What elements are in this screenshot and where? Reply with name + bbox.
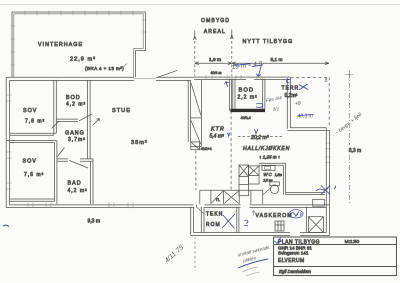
closet band cells: [200, 190, 263, 204]
blue mark at bod2 wall: [256, 103, 263, 107]
svg-text:3,7m²: 3,7m²: [68, 137, 86, 143]
blue V arrow: [255, 129, 259, 134]
dashed TERR boundary: [291, 77, 330, 128]
blue X tekn rom: [222, 214, 235, 229]
svg-text:BOD: BOD: [239, 88, 255, 94]
svg-text:SOV: SOV: [23, 159, 37, 165]
svg-text:5,4 m²: 5,4 m²: [210, 134, 225, 140]
svg-text:BOD: BOD: [66, 95, 81, 101]
right wall ticks: [325, 143, 331, 163]
door diag sov2: [58, 148, 65, 157]
svg-text:NYTT TILBYGG: NYTT TILBYGG: [243, 39, 294, 45]
svg-text:40/2+4: 40/2+4: [201, 147, 212, 151]
svg-text:4,2 m²: 4,2 m²: [66, 102, 86, 108]
right dimension dashdot + cross: [345, 71, 353, 205]
svg-text:BAD: BAD: [68, 181, 82, 187]
left wall window ticks: [6, 95, 12, 189]
svg-text:↑ 1,25 m ↑: ↑ 1,25 m ↑: [259, 155, 280, 160]
svg-text:WC: WC: [263, 172, 272, 177]
svg-text:7,6 m²: 7,6 m²: [24, 172, 44, 178]
SOV2 right wall: [54, 141, 57, 204]
blue cursive near title: [237, 245, 272, 265]
svg-text:M:1:50: M:1:50: [345, 239, 360, 245]
closet strip ktr: [190, 80, 201, 147]
BOD2 right wall: [263, 79, 265, 109]
svg-text:STUE: STUE: [112, 108, 131, 114]
kitchen counter strip left: [239, 165, 249, 196]
svg-text:TEKN: TEKN: [206, 212, 223, 218]
tekn door leaf: [198, 208, 204, 214]
floor drain box: [275, 221, 284, 231]
svg-text:TL: TL: [216, 198, 220, 202]
main house top wall east: [194, 77, 291, 79]
svg-text:9,3 m: 9,3 m: [88, 219, 101, 225]
blue X over terr: [299, 84, 308, 90]
shower box: [308, 217, 323, 233]
svg-text:22,9 m²: 22,9 m²: [70, 57, 96, 63]
svg-text:+8: +8: [295, 101, 301, 107]
SOV1 bottom wall: [10, 133, 57, 135]
svg-text:4,2 m²: 4,2 m²: [68, 188, 88, 194]
door leaf bad: [70, 161, 89, 169]
dashed removed wall stue: [195, 151, 197, 191]
BAD top wall w/door: [57, 159, 93, 161]
svg-text:PLAN TILBYGG: PLAN TILBYGG: [278, 239, 320, 245]
vinterhage walls: [12, 12, 145, 77]
SOV2 top wall: [6, 141, 57, 143]
svg-text:40/4 m: 40/4 m: [211, 71, 222, 75]
WC sink vanity: [262, 166, 275, 171]
main house bottom wall west: [6, 205, 193, 208]
svg-text:(BRA 4 + 13 m²): (BRA 4 + 13 m²): [85, 66, 124, 71]
vinterhage window ticks: [11, 11, 147, 66]
blue arrow ktr: [225, 82, 229, 88]
svg-text:38m²: 38m²: [131, 140, 148, 146]
svg-text:KTR: KTR: [211, 127, 225, 133]
dimension line 1.9/5.1: [195, 62, 329, 65]
svg-text:7,6 m²: 7,6 m²: [25, 119, 45, 125]
title block: [274, 237, 397, 276]
svg-text:5,1 m: 5,1 m: [271, 57, 283, 63]
STUE right wall: [188, 80, 190, 142]
svg-text:5,2m²: 5,2m²: [285, 93, 298, 99]
dashed below extension: [194, 237, 196, 271]
BAD right wall: [91, 159, 94, 204]
svg-text:20,2 m²: 20,2 m²: [250, 135, 269, 141]
toilet: [270, 182, 280, 194]
BOD1 bottom wall w/ door: [56, 119, 78, 121]
svg-text:Svingenvn 141: Svingenvn 141: [278, 251, 309, 256]
main house top wall west: [6, 77, 194, 80]
svg-text:SOV: SOV: [23, 108, 37, 114]
terr bottom wall: [287, 128, 329, 131]
blue scribble 19m/4.0: [231, 60, 263, 71]
svg-text:8: 8: [325, 78, 328, 84]
vaskerom divider wall: [306, 207, 308, 233]
blue check title block: [275, 238, 281, 244]
blue scribble after vaskerom: [291, 212, 302, 217]
svg-text:GANG: GANG: [65, 131, 85, 137]
door leaf vinterhage-stue: [157, 70, 178, 77]
entre south wall: [286, 193, 325, 195]
BOD2 left wall: [233, 79, 235, 109]
dashed hall divider: [195, 36, 232, 76]
main house left wall: [6, 77, 9, 207]
blue C mark: [286, 80, 290, 83]
extension bottom wall: [191, 233, 330, 236]
svg-text:ROM: ROM: [206, 222, 221, 228]
right wall of house: [326, 128, 329, 236]
svg-text:Egil Damhakken: Egil Damhakken: [279, 269, 312, 274]
extension left wall: [191, 207, 194, 236]
TEKN ROM walls: [201, 207, 239, 233]
kitchen box: [249, 166, 260, 184]
interior: SOV1 right wall: [54, 80, 57, 135]
BOD1/GANG right wall: [88, 80, 91, 159]
pencil arrow vaskerom: [252, 211, 255, 216]
svg-text:8,3 m: 8,3 m: [349, 148, 362, 154]
WC door leaf: [263, 188, 271, 195]
dashed removed wall ktr: [230, 111, 232, 190]
SOV2 bottom inner wall: [10, 199, 55, 201]
pencil arrow stue door: [93, 119, 100, 126]
svg-text:3/1: 3/1: [273, 107, 280, 113]
window ticks top east: [206, 75, 261, 80]
BOD2 dark bottom band: [230, 109, 265, 112]
blue 5/6 mark: [244, 220, 248, 226]
door arrow gang-sov1: [52, 121, 60, 129]
svg-text:AREAL: AREAL: [204, 29, 226, 35]
blue pen annotations: [3, 60, 364, 268]
svg-text:40/0,4: 40/0,4: [241, 116, 251, 120]
closet diagonals: [212, 191, 239, 203]
svg-text:2,2 m²: 2,2 m²: [238, 95, 258, 101]
bottom wall window ticks: [28, 203, 133, 209]
pencil wisps: [242, 267, 260, 276]
chimney: [191, 142, 200, 150]
svg-text:VINTERHAGE: VINTERHAGE: [38, 42, 83, 48]
svg-text:1,9 m: 1,9 m: [209, 57, 221, 63]
svg-text:ELVERUM: ELVERUM: [278, 258, 305, 264]
pencil faint notes: [201, 71, 251, 151]
svg-text:1,5m: 1,5m: [275, 173, 282, 177]
svg-text:TERR: TERR: [282, 86, 300, 92]
blue marks right wall: [316, 186, 336, 195]
main bottom wall east (over extension) with door gaps: [197, 205, 330, 208]
KTR right wall solid: [229, 79, 231, 111]
blue left edge mark: [3, 225, 9, 226]
svg-text:HALL/KJØKKEN: HALL/KJØKKEN: [243, 146, 290, 152]
OMBYGD AREAL arrows: [193, 30, 233, 41]
blue arrow to bod2 door: [257, 65, 262, 77]
WC walls: [259, 163, 286, 194]
door leaf bod1: [79, 114, 92, 121]
TERR exterior wall (bod2 right ext): [287, 78, 290, 129]
entry step box: [313, 199, 325, 206]
closet band top line: [200, 189, 263, 191]
svg-text:OMBYGD: OMBYGD: [201, 18, 230, 24]
svg-text:VASKEROM: VASKEROM: [256, 213, 293, 219]
